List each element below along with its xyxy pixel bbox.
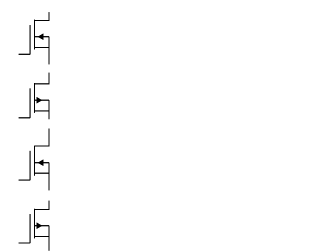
Q3 source lead bbox=[48, 163, 50, 191]
transistor Q3 (NMOS, body arrow pointing left) bbox=[19, 129, 49, 191]
Q2 gate wire bbox=[19, 117, 30, 119]
Q2 body arrow (points right) bbox=[37, 97, 43, 103]
Q3 source stub bbox=[34, 172, 49, 174]
Q3 gate wire bbox=[19, 179, 30, 181]
Q1 drain stub and lead bbox=[34, 12, 49, 20]
Q1 gate plate bbox=[29, 25, 31, 54]
Q4 gate wire bbox=[19, 242, 30, 244]
Q4 channel plate bbox=[33, 209, 35, 238]
Q4 gate plate bbox=[29, 214, 31, 243]
Q2 source stub bbox=[34, 110, 49, 112]
Q2 drain stub and lead bbox=[34, 73, 49, 84]
Q2 body stub bbox=[34, 99, 49, 101]
Q4 body arrow (points right) bbox=[37, 223, 43, 229]
transistor Q4 (PMOS, body arrow pointing right) bbox=[19, 201, 49, 251]
Q1 body stub bbox=[34, 36, 49, 38]
Q3 body arrow (points left) bbox=[38, 160, 44, 166]
Q1 gate wire bbox=[19, 53, 30, 55]
Q1 body arrow (points left) bbox=[38, 34, 44, 40]
Q3 body stub bbox=[34, 162, 49, 164]
Q4 body stub bbox=[34, 225, 49, 227]
transistor Q2 (PMOS, body arrow pointing right) bbox=[19, 73, 49, 119]
Q1 source lead bbox=[48, 37, 50, 65]
Q4 source stub bbox=[34, 236, 49, 238]
Q3 drain stub and lead bbox=[34, 129, 49, 147]
Q3 channel plate bbox=[33, 146, 35, 176]
Q4 source lead bbox=[48, 226, 50, 251]
Q2 source lead bbox=[48, 100, 50, 119]
Q1 channel plate bbox=[33, 20, 35, 50]
Q1 source stub bbox=[34, 47, 49, 49]
Q2 channel plate bbox=[33, 83, 35, 113]
transistor Q1 (NMOS, body arrow pointing left) bbox=[19, 12, 49, 64]
Q4 drain stub and lead bbox=[34, 201, 49, 210]
Q3 gate plate bbox=[29, 151, 31, 180]
Q2 gate plate bbox=[29, 88, 31, 117]
